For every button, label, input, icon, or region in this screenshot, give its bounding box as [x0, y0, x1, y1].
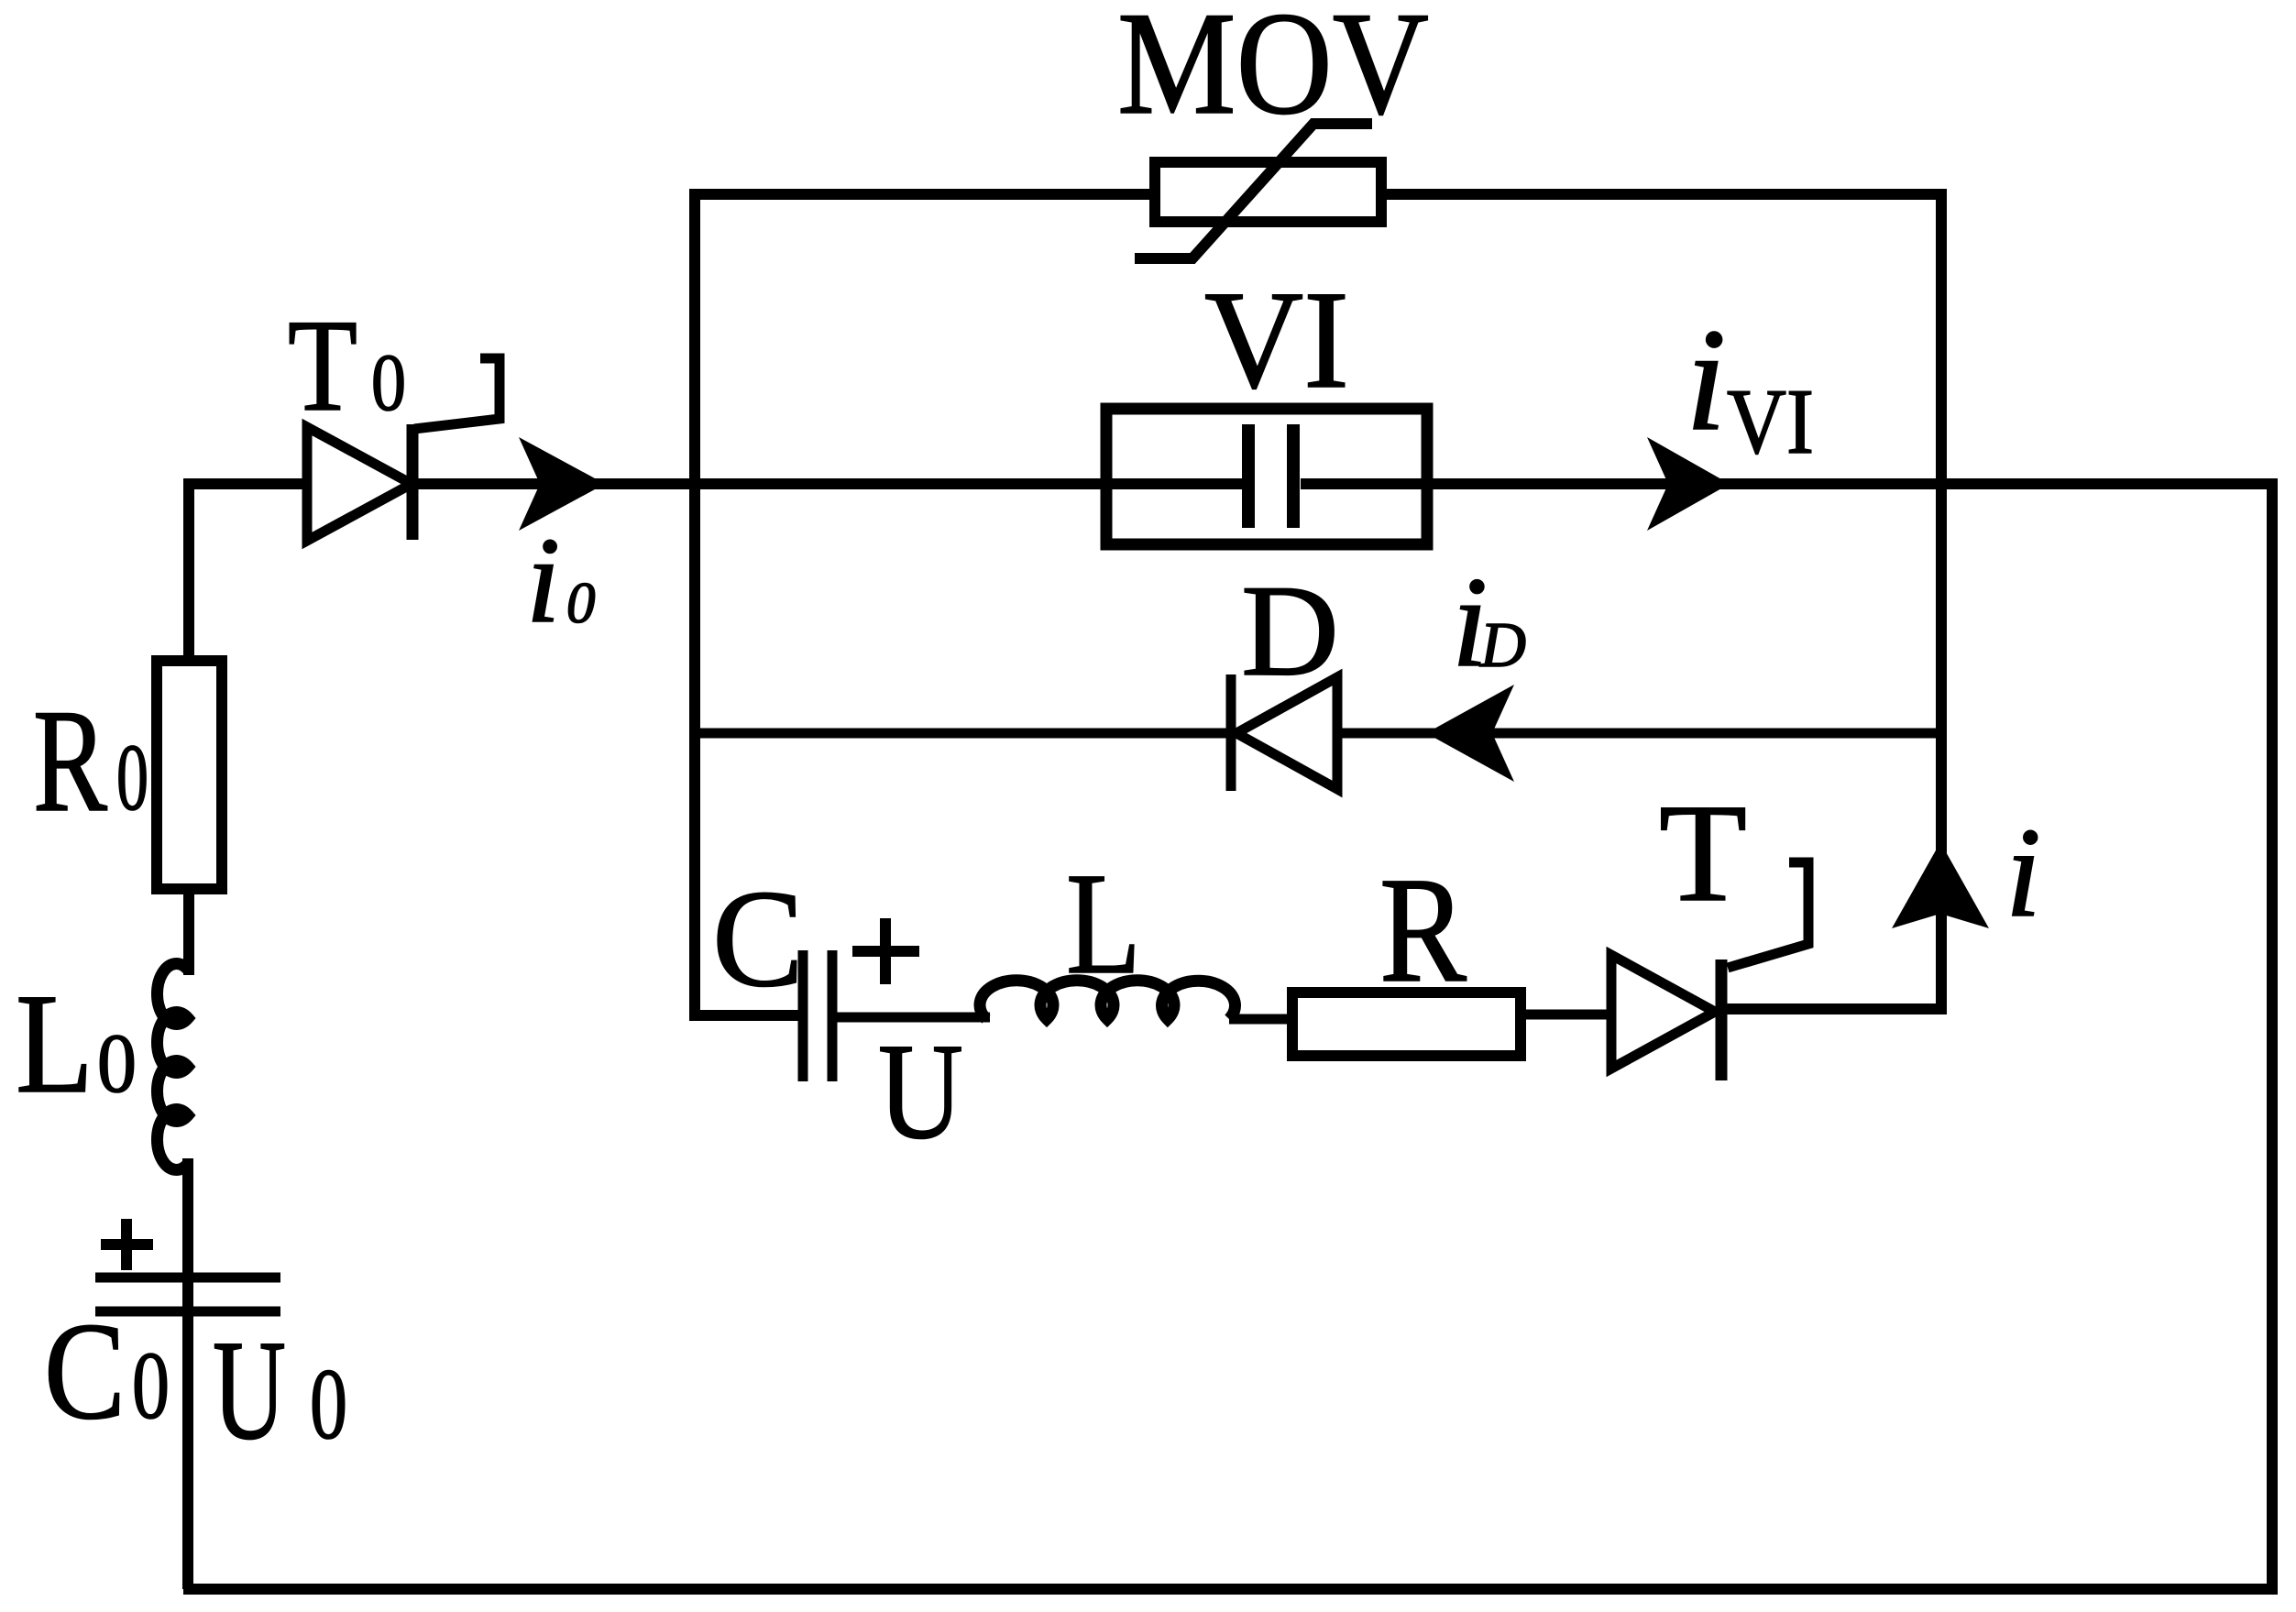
svg-text:T: T — [1659, 776, 1747, 931]
thyristor T0 gate — [414, 358, 500, 429]
wire D branch — [695, 729, 1941, 739]
svg-text:0: 0 — [97, 1016, 137, 1110]
arrow iVI — [1647, 437, 1730, 531]
thyristor T0 triangle — [307, 427, 412, 541]
diode D triangle — [1236, 677, 1337, 789]
svg-text:R: R — [1379, 846, 1467, 1014]
wire outer loop: middle wire, right side, bottom wire — [183, 484, 2272, 1589]
wire L to R — [1229, 1014, 1294, 1025]
MOV diagonal — [1135, 124, 1372, 258]
svg-text:U: U — [878, 1015, 963, 1168]
svg-text:C: C — [712, 861, 804, 1015]
wire T to right vertical — [1721, 1003, 1947, 1014]
wire left column between R0 and L0 — [183, 889, 194, 975]
wire bottom branch segment C to L — [836, 1013, 990, 1023]
diode D cathode bar — [1226, 674, 1236, 791]
wire left column lower through C0 — [182, 1158, 193, 1589]
svg-text:L: L — [16, 964, 93, 1123]
plus sign near C — [852, 918, 919, 984]
svg-text:VI: VI — [1727, 370, 1814, 474]
svg-text:0: 0 — [566, 571, 596, 635]
svg-text:D: D — [1241, 558, 1339, 703]
arrow i up — [1892, 842, 1989, 928]
svg-text:VI: VI — [1204, 263, 1349, 418]
arrow i0 — [519, 437, 605, 531]
svg-text:i: i — [2005, 802, 2041, 944]
svg-text:0: 0 — [310, 1348, 347, 1460]
plus sign near C0 — [101, 1219, 153, 1270]
svg-text:0: 0 — [132, 1332, 170, 1439]
VI left plate — [1242, 424, 1255, 528]
VI right stub — [1301, 478, 1427, 489]
thyristor T0 cathode bar — [407, 424, 419, 540]
VI right plate — [1287, 424, 1300, 528]
svg-text:MOV: MOV — [1117, 0, 1429, 145]
svg-text:U: U — [213, 1310, 286, 1469]
svg-text:R: R — [33, 679, 107, 842]
thyristor T gate — [1728, 862, 1808, 968]
thyristor T cathode bar — [1716, 960, 1728, 1080]
capacitor C0 plates — [95, 1273, 280, 1283]
svg-text:0: 0 — [371, 338, 406, 428]
VI left stub — [1106, 478, 1242, 489]
svg-text:D: D — [1479, 610, 1526, 681]
svg-text:T: T — [288, 293, 357, 439]
svg-text:i: i — [526, 512, 560, 648]
svg-text:C: C — [44, 1294, 126, 1448]
resistor R — [1292, 992, 1521, 1056]
thyristor T triangle — [1611, 955, 1715, 1069]
svg-text:0: 0 — [116, 725, 148, 830]
capacitor C plates (bottom branch) — [798, 950, 808, 1081]
MOV box — [1155, 162, 1381, 222]
wire left column upper — [183, 484, 194, 661]
inductor L0 — [157, 964, 188, 1170]
svg-text:L: L — [1066, 843, 1141, 1004]
inductor L — [980, 981, 1236, 1019]
svg-text:i: i — [1686, 298, 1726, 461]
arrow iD — [1426, 685, 1514, 782]
VI box — [1106, 409, 1427, 544]
wire inner box: right vertical, top wire, left vertical, corner to bottom branch — [695, 194, 1941, 1015]
wire R to T — [1521, 1010, 1616, 1020]
resistor R0 — [157, 661, 222, 889]
